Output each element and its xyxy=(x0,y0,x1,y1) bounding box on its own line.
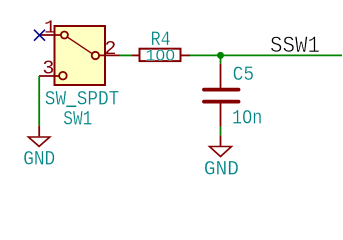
svg-text:3: 3 xyxy=(42,58,54,80)
svg-text:1OO: 1OO xyxy=(145,48,175,67)
wire cap to gnd xyxy=(220,127,222,136)
pin 2 xyxy=(99,54,120,56)
wire junction down xyxy=(220,55,222,63)
capacitor C5 top pin xyxy=(220,64,222,89)
svg-text:C5: C5 xyxy=(233,64,255,87)
wire pin2 to resistor xyxy=(120,54,132,56)
pin 3 contact circle xyxy=(59,72,67,80)
resistor R4 body xyxy=(140,49,181,61)
wire pin3 down xyxy=(38,76,40,126)
svg-text:2: 2 xyxy=(104,38,116,60)
left GND stub xyxy=(38,126,40,137)
svg-text:1: 1 xyxy=(44,19,56,39)
no-connect X xyxy=(34,30,45,41)
capacitor C5 top plate xyxy=(204,88,239,92)
resistor R4 left pin xyxy=(131,54,139,56)
svg-text:1On: 1On xyxy=(232,108,262,131)
svg-text:SSW1: SSW1 xyxy=(270,33,320,59)
pin 2 contact circle xyxy=(92,52,99,59)
pin 3 xyxy=(39,75,60,77)
resistor R4 right pin xyxy=(181,54,190,56)
switch SW1 body xyxy=(55,26,106,85)
switch lever xyxy=(68,37,93,53)
pin 1 contact circle xyxy=(61,32,68,39)
wire resistor to right edge xyxy=(190,54,342,56)
capacitor C5 bottom pin xyxy=(220,103,222,126)
svg-text:GND: GND xyxy=(204,159,239,182)
right GND triangle xyxy=(210,147,232,157)
capacitor C5 bottom plate xyxy=(204,100,239,104)
right GND stub xyxy=(220,135,222,146)
svg-text:SW1: SW1 xyxy=(63,108,92,131)
pin 1 xyxy=(40,34,62,36)
left GND triangle xyxy=(28,137,49,146)
junction xyxy=(217,52,224,59)
svg-text:GND: GND xyxy=(23,148,55,171)
